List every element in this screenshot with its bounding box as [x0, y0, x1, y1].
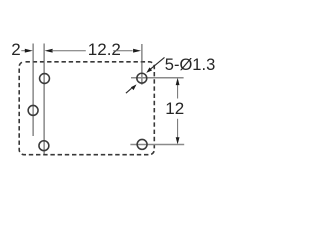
extension line left col B (through top/bottom left holes): [43, 44, 45, 155]
svg-text:5-Ø1.3: 5-Ø1.3: [165, 56, 215, 74]
hole top-right: [137, 73, 147, 83]
svg-text:2: 2: [11, 40, 20, 59]
hole bottom-left: [39, 141, 49, 151]
extension line horizontal through bottom-right hole: [130, 144, 184, 146]
dim 12.2 left arrow (points left at line B): [45, 49, 53, 53]
hole top-left: [40, 74, 50, 84]
dim 12 line upper segment with up arrow: [177, 84, 179, 99]
svg-text:12: 12: [165, 99, 184, 118]
extension line vertical through top-right hole: [141, 44, 143, 85]
extension line left col A (through middle hole): [32, 44, 34, 137]
leader arrow upper (from 5-Ø1.3 label to top-right hole): [150, 57, 164, 69]
extension line horizontal through top-right hole: [131, 77, 184, 79]
dim 2 arrow (points right at line A): [21, 50, 25, 52]
hole middle-left: [28, 105, 38, 115]
hole bottom-right: [137, 139, 147, 149]
leader arrow lower-left (points at top-right hole from below-left): [126, 88, 132, 93]
dim 12.2 right arrow (points right at hole line): [113, 50, 132, 52]
dim 12 line lower segment with down arrow: [177, 119, 179, 139]
component body outline (dashed): [19, 62, 154, 155]
svg-text:12.2: 12.2: [88, 40, 121, 59]
